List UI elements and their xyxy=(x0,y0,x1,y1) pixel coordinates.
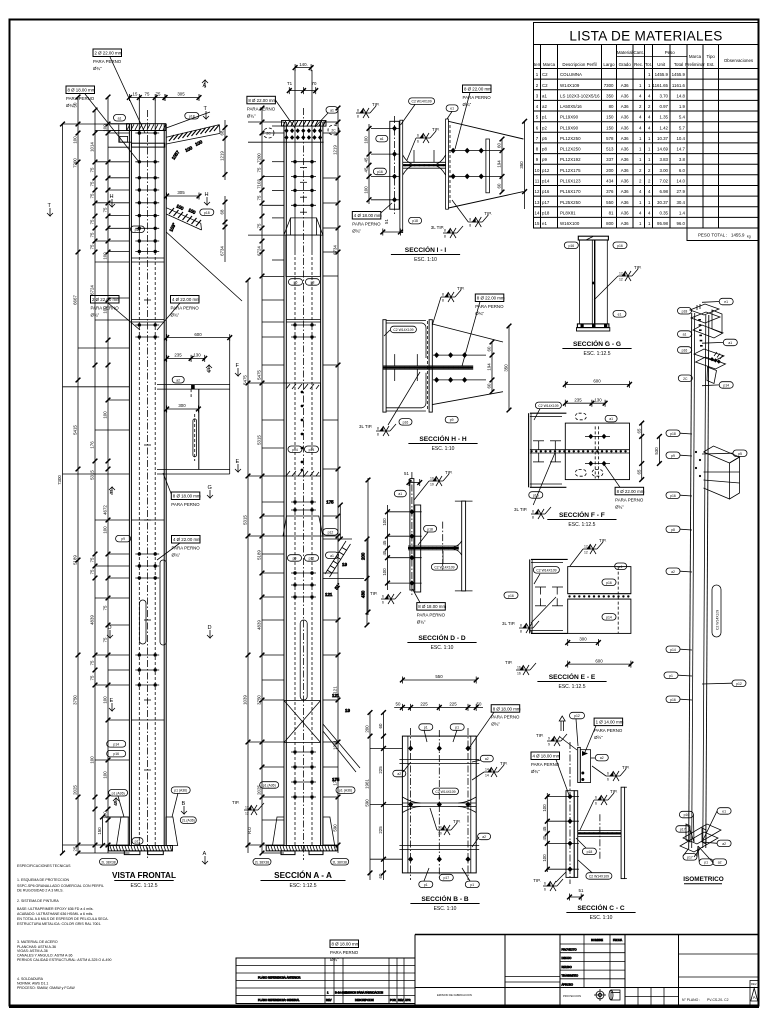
svg-text:8: 8 xyxy=(377,427,379,431)
svg-text:1014: 1014 xyxy=(90,142,95,152)
seat dim 300 xyxy=(164,403,201,412)
svg-text:ESC. 1:10: ESC. 1:10 xyxy=(590,915,613,921)
column1 top cap plate xyxy=(127,124,166,131)
svg-text:3L TIP.: 3L TIP. xyxy=(431,225,444,230)
E-E weld top xyxy=(570,538,606,566)
iso leader lines xyxy=(678,302,733,863)
I-I weld 6 6 mid xyxy=(407,127,439,160)
svg-text:5415: 5415 xyxy=(73,425,78,435)
svg-text:LS 102X3-102X5/16: LS 102X3-102X5/16 xyxy=(560,93,600,98)
D-D bubble a1 xyxy=(394,490,406,497)
svg-text:100: 100 xyxy=(103,306,108,314)
col1 extension lines xyxy=(63,124,130,853)
I-I bubble p16 xyxy=(373,168,386,175)
svg-text:12: 12 xyxy=(619,278,623,282)
iso top bolts xyxy=(698,253,722,347)
marker G up xyxy=(206,365,212,374)
column2 centerline dots xyxy=(300,167,307,212)
svg-text:a2: a2 xyxy=(722,842,726,846)
svg-text:TIP.: TIP. xyxy=(453,819,460,824)
svg-text:p1: p1 xyxy=(669,674,673,678)
svg-text:430: 430 xyxy=(361,590,366,598)
I-I gusset xyxy=(448,121,523,208)
I-I weld TIP top left xyxy=(356,102,379,119)
dim 150 near base xyxy=(97,815,105,848)
svg-text:Total: Total xyxy=(674,62,683,67)
svg-text:5475: 5475 xyxy=(257,370,262,380)
F-F bubble p16 xyxy=(529,492,543,499)
column1 base plate xyxy=(109,846,173,855)
svg-text:45: 45 xyxy=(382,540,387,545)
svg-text:PARA PERNO: PARA PERNO xyxy=(171,502,200,507)
svg-text:2025: 2025 xyxy=(257,785,262,795)
svg-text:6: 6 xyxy=(607,778,609,782)
C-C leader 4口18 xyxy=(531,752,569,795)
svg-text:3.70: 3.70 xyxy=(659,93,668,98)
svg-text:POR: POR xyxy=(390,998,396,1002)
svg-text:305: 305 xyxy=(177,190,185,195)
D-D weld TIP bottom left xyxy=(370,591,401,605)
svg-text:0.35: 0.35 xyxy=(659,210,668,215)
svg-text:60: 60 xyxy=(378,873,383,878)
svg-text:100: 100 xyxy=(103,526,108,534)
H-H web band xyxy=(383,366,473,369)
I-I bubble a1 xyxy=(376,135,388,142)
svg-text:PROCESO: SMAW, GMAW y FCAW: PROCESO: SMAW, GMAW y FCAW xyxy=(17,986,75,990)
svg-text:Ø½": Ø½" xyxy=(594,735,603,740)
svg-text:51: 51 xyxy=(579,888,584,893)
svg-text:p14: p14 xyxy=(723,384,729,388)
F-F weld 3L xyxy=(514,452,555,520)
svg-text:TRANSMITIO: TRANSMITIO xyxy=(562,974,579,978)
svg-text:p14: p14 xyxy=(670,648,676,652)
svg-text:600: 600 xyxy=(593,379,601,384)
svg-text:175: 175 xyxy=(326,500,334,505)
column2 base bubbles xyxy=(253,782,355,865)
svg-text:B: B xyxy=(114,801,118,807)
svg-text:8: 8 xyxy=(357,115,359,119)
I-I leader 8口22 xyxy=(455,85,492,149)
svg-text:e1: e1 xyxy=(619,565,623,569)
svg-text:200: 200 xyxy=(365,725,370,733)
svg-text:6724: 6724 xyxy=(90,285,95,295)
svg-text:PL12X250: PL12X250 xyxy=(560,136,581,141)
svg-text:ESC. 1:10: ESC. 1:10 xyxy=(414,257,437,263)
svg-text:300: 300 xyxy=(579,637,587,642)
svg-text:SECCIÓN G - G: SECCIÓN G - G xyxy=(573,339,621,348)
svg-text:8 Ø 22.00 mm: 8 Ø 22.00 mm xyxy=(477,296,505,301)
F-F dims right xyxy=(636,421,644,482)
svg-text:p16: p16 xyxy=(670,494,676,498)
F-F dim 600 xyxy=(563,379,632,388)
svg-text:p14: p14 xyxy=(542,179,550,184)
svg-text:75: 75 xyxy=(90,219,95,224)
svg-text:p14: p14 xyxy=(309,448,315,452)
svg-text:2C: 2C xyxy=(683,377,688,381)
svg-text:75: 75 xyxy=(156,92,161,97)
svg-text:p14: p14 xyxy=(292,448,298,452)
svg-text:T: T xyxy=(48,203,52,209)
svg-text:81: 81 xyxy=(609,210,614,215)
svg-text:100: 100 xyxy=(103,252,108,260)
leader label 8口18 bottom mid xyxy=(330,940,360,962)
column1 base gussets xyxy=(105,817,178,846)
svg-text:9: 9 xyxy=(548,737,550,741)
column2 trapezoid seat 2 xyxy=(283,516,323,536)
F-F dim 235 130 xyxy=(563,397,608,406)
D-D right flange xyxy=(443,501,473,591)
svg-text:EMISION PARA FABRICACION: EMISION PARA FABRICACION xyxy=(345,991,383,995)
svg-text:p1 (A36): p1 (A36) xyxy=(174,789,187,793)
left dimension chain 4 xyxy=(103,95,111,853)
svg-text:1455.9: 1455.9 xyxy=(731,233,745,238)
iso top cluster xyxy=(690,208,723,338)
svg-text:p8: p8 xyxy=(311,281,315,285)
svg-text:75: 75 xyxy=(90,675,95,680)
svg-text:C2 W14X109: C2 W14X109 xyxy=(716,610,720,630)
leader line 2 top xyxy=(85,94,139,162)
svg-text:350: 350 xyxy=(606,93,614,98)
marker D right xyxy=(207,625,213,638)
marker T left xyxy=(47,203,53,216)
iso mid bracket xyxy=(704,446,740,499)
svg-text:100: 100 xyxy=(382,518,387,526)
D-D plate bolts xyxy=(388,509,422,586)
svg-text:100: 100 xyxy=(103,411,108,419)
B-B leader 8口18 xyxy=(469,705,521,748)
svg-text:PL16X123: PL16X123 xyxy=(560,179,581,184)
svg-text:PARA PERNO: PARA PERNO xyxy=(531,762,560,767)
svg-text:e1: e1 xyxy=(722,810,726,814)
svg-text:65: 65 xyxy=(636,428,641,433)
svg-text:8: 8 xyxy=(469,218,471,222)
svg-text:2L (A36): 2L (A36) xyxy=(182,819,195,823)
svg-text:235: 235 xyxy=(174,353,182,358)
svg-text:1455.9: 1455.9 xyxy=(655,72,669,77)
column2 cross detail xyxy=(284,701,321,743)
svg-text:Ø¾": Ø¾" xyxy=(172,553,181,558)
column2 a1 hex bubble xyxy=(315,107,338,127)
svg-text:p1 (A36): p1 (A36) xyxy=(112,791,125,795)
svg-text:APROBO: APROBO xyxy=(562,982,574,986)
seccion A-A column body xyxy=(284,70,323,860)
svg-text:530: 530 xyxy=(654,447,659,455)
svg-text:TIP.: TIP. xyxy=(232,800,239,805)
F-F center bolt band xyxy=(530,450,630,453)
F-F channel xyxy=(529,413,567,487)
svg-text:B: B xyxy=(182,801,186,807)
svg-text:p12: p12 xyxy=(328,530,334,534)
svg-text:a2: a2 xyxy=(600,756,604,760)
svg-text:Ø¾": Ø¾" xyxy=(615,504,624,509)
H-H weld 3L TIP xyxy=(359,372,420,437)
column2 cap bolt band xyxy=(284,128,324,142)
svg-text:NORMA: AWS D1.1: NORMA: AWS D1.1 xyxy=(17,982,48,986)
svg-text:A: A xyxy=(753,995,756,1000)
svg-text:p14: p14 xyxy=(606,615,612,619)
svg-text:Unit: Unit xyxy=(657,62,666,67)
svg-text:6734: 6734 xyxy=(333,245,338,255)
column2 plate bolts xyxy=(301,391,304,472)
svg-text:200: 200 xyxy=(361,552,366,560)
svg-text:376: 376 xyxy=(606,189,614,194)
svg-text:19: 19 xyxy=(345,708,350,713)
svg-text:p9: p9 xyxy=(671,454,675,458)
iso base cluster xyxy=(680,824,721,857)
svg-text:10: 10 xyxy=(535,168,540,173)
left dimension chain 2 xyxy=(73,95,81,856)
F-F plate bolts xyxy=(585,434,610,467)
svg-text:27.9: 27.9 xyxy=(676,189,685,194)
svg-text:4. SOLDADURA: 4. SOLDADURA xyxy=(17,977,44,981)
svg-text:2 Ø 22.00 mm: 2 Ø 22.00 mm xyxy=(95,51,123,56)
svg-text:9: 9 xyxy=(548,743,550,747)
svg-text:p16: p16 xyxy=(542,189,550,194)
svg-text:Ø¾": Ø¾" xyxy=(93,66,102,71)
C-C weld bottom xyxy=(533,872,566,892)
svg-text:60: 60 xyxy=(378,723,383,728)
svg-text:SECCIÓN F - F: SECCIÓN F - F xyxy=(559,510,605,519)
C-C weld TIP topleft xyxy=(536,733,577,750)
C-C top clip detail xyxy=(559,716,590,783)
column1 base labels xyxy=(100,787,197,865)
svg-text:p17: p17 xyxy=(542,200,550,205)
svg-text:TIP.: TIP. xyxy=(599,538,606,543)
seccion I-I end plate xyxy=(390,116,399,214)
svg-text:1. ESQUEMA DE PROTECCION: 1. ESQUEMA DE PROTECCION xyxy=(17,878,69,882)
svg-text:p16: p16 xyxy=(508,594,514,598)
svg-text:8: 8 xyxy=(520,624,522,628)
I-I dims left xyxy=(364,124,372,204)
svg-text:600: 600 xyxy=(194,332,202,337)
svg-text:6: 6 xyxy=(417,134,419,138)
svg-text:p16: p16 xyxy=(135,228,141,232)
E-E weld 3L xyxy=(502,597,556,634)
section arrow A bottom col1 xyxy=(202,851,208,864)
bubble p9 xyxy=(116,535,131,542)
svg-text:10: 10 xyxy=(438,826,442,830)
column2 bubbles pair xyxy=(289,279,320,286)
svg-text:590: 590 xyxy=(365,799,370,807)
column2 trapezoid seat 1 xyxy=(284,218,323,235)
svg-text:ISOMETRICO: ISOMETRICO xyxy=(683,876,724,883)
svg-text:TIP.: TIP. xyxy=(432,127,439,132)
svg-text:96.0: 96.0 xyxy=(676,221,685,226)
svg-text:2L 38X38: 2L 38X38 xyxy=(101,860,116,864)
svg-text:p18: p18 xyxy=(670,432,676,436)
svg-text:8 Ø 18.00 mm: 8 Ø 18.00 mm xyxy=(332,942,360,947)
leader label 2口22 top xyxy=(93,49,123,71)
svg-text:A36: A36 xyxy=(621,83,629,88)
H-H gusset bolts xyxy=(433,352,486,383)
B-B weld mid xyxy=(430,808,460,836)
svg-text:11: 11 xyxy=(535,179,540,184)
svg-text:REVISO: REVISO xyxy=(562,965,572,969)
svg-text:350: 350 xyxy=(504,364,509,372)
svg-text:T1: T1 xyxy=(287,81,293,86)
svg-text:45: 45 xyxy=(364,167,369,172)
peso total box xyxy=(687,228,759,241)
svg-text:F: F xyxy=(110,490,114,496)
svg-text:ESTRUCTURA METALICA: COLOR GRI: ESTRUCTURA METALICA: COLOR GRIS RAL 7001… xyxy=(17,922,101,926)
svg-text:A: A xyxy=(203,851,207,857)
svg-text:TIP.: TIP. xyxy=(370,591,377,596)
B-B center label xyxy=(433,788,459,795)
svg-text:19: 19 xyxy=(342,562,347,567)
column1 top diagonal brace xyxy=(166,112,220,161)
svg-text:45: 45 xyxy=(382,550,387,555)
svg-text:SECCIÓN B - B: SECCIÓN B - B xyxy=(421,894,468,903)
I-I weld TIP bottom right xyxy=(452,200,492,228)
svg-text:SECCIÓN D - D: SECCIÓN D - D xyxy=(418,633,465,642)
column2 top cap plate xyxy=(282,121,327,127)
svg-text:p16: p16 xyxy=(403,420,409,424)
svg-text:8: 8 xyxy=(469,224,471,228)
svg-text:a1: a1 xyxy=(609,417,613,421)
svg-text:5189: 5189 xyxy=(257,550,262,560)
svg-text:PARA PERNO: PARA PERNO xyxy=(66,96,95,101)
I-I dim 51 xyxy=(380,219,402,236)
svg-text:p16: p16 xyxy=(606,581,612,585)
svg-text:1.4: 1.4 xyxy=(679,210,686,215)
marker F left mid xyxy=(109,487,115,496)
svg-text:200: 200 xyxy=(606,168,614,173)
svg-text:a2: a2 xyxy=(397,772,401,776)
B-B weld 14 14 xyxy=(472,761,507,780)
svg-text:LISTA DE MATERIALES: LISTA DE MATERIALES xyxy=(569,29,722,44)
svg-text:PESO TOTAL :: PESO TOTAL : xyxy=(698,233,727,238)
svg-text:8: 8 xyxy=(444,235,446,239)
D-D end plate xyxy=(410,472,421,596)
svg-text:8 Ø 18.00 mm: 8 Ø 18.00 mm xyxy=(418,604,446,609)
svg-text:12: 12 xyxy=(535,189,540,194)
seccion F-F title xyxy=(547,510,616,528)
svg-text:H: H xyxy=(205,192,209,198)
svg-text:16: 16 xyxy=(517,666,521,670)
svg-text:4839: 4839 xyxy=(257,620,262,630)
svg-text:6: 6 xyxy=(595,796,597,800)
svg-text:a1: a1 xyxy=(398,492,402,496)
B-B dims left xyxy=(365,710,373,880)
svg-text:TIP.: TIP. xyxy=(505,660,512,665)
svg-text:p9: p9 xyxy=(542,157,547,162)
D-D weld TIP top right xyxy=(414,470,452,500)
svg-text:e1: e1 xyxy=(542,221,547,226)
svg-text:121: 121 xyxy=(325,592,333,597)
svg-text:6: 6 xyxy=(607,772,609,776)
svg-text:A36: A36 xyxy=(621,147,629,152)
title block main boxes xyxy=(415,935,759,1006)
svg-text:NOMBRE: NOMBRE xyxy=(591,938,603,942)
svg-text:LA50X5/16: LA50X5/16 xyxy=(560,104,582,109)
seat label 8口18 xyxy=(163,473,201,507)
svg-text:p16: p16 xyxy=(682,349,688,353)
title block revision table xyxy=(236,958,415,1004)
dim 75 75 top col1 xyxy=(127,92,167,101)
B-B bolts xyxy=(370,746,471,863)
D-D web band xyxy=(408,546,459,550)
svg-text:1039: 1039 xyxy=(243,695,248,705)
svg-text:100: 100 xyxy=(364,136,369,144)
svg-text:25: 25 xyxy=(73,846,78,851)
D-D far left chain xyxy=(366,478,371,615)
svg-text:a1: a1 xyxy=(330,554,334,558)
svg-text:75: 75 xyxy=(103,207,108,212)
svg-text:PARA PERNO: PARA PERNO xyxy=(615,497,644,502)
svg-text:225: 225 xyxy=(449,702,457,707)
svg-text:14: 14 xyxy=(485,774,489,778)
svg-text:130: 130 xyxy=(193,353,201,358)
seccion H-H channel xyxy=(383,320,426,412)
svg-text:p1: p1 xyxy=(470,883,474,887)
column2 top bolt rows xyxy=(291,160,316,339)
svg-text:p1: p1 xyxy=(542,115,547,120)
svg-text:p18: p18 xyxy=(204,211,210,215)
svg-text:e1: e1 xyxy=(450,107,454,111)
proyeccion symbols xyxy=(563,989,620,1001)
svg-text:kg: kg xyxy=(747,235,751,239)
column2 8口22 leader xyxy=(247,96,295,128)
svg-text:TIP.: TIP. xyxy=(457,286,464,291)
svg-text:p16: p16 xyxy=(568,244,574,248)
svg-text:30.4: 30.4 xyxy=(676,200,685,205)
svg-text:8: 8 xyxy=(520,630,522,634)
D-D stadium label xyxy=(431,551,457,570)
materials list table xyxy=(533,23,759,241)
svg-text:1161.6: 1161.6 xyxy=(672,83,686,88)
svg-text:p9: p9 xyxy=(293,557,297,561)
svg-text:10: 10 xyxy=(430,483,434,487)
svg-text:60: 60 xyxy=(487,383,492,388)
column2 bubbles pair 2 xyxy=(288,555,319,562)
svg-text:225: 225 xyxy=(420,702,428,707)
bubble a1 topleft xyxy=(114,115,126,122)
C-C bubble p12 xyxy=(570,712,585,746)
svg-text:A: A xyxy=(203,83,207,89)
svg-text:PL8X81: PL8X81 xyxy=(560,210,576,215)
svg-text:14: 14 xyxy=(535,210,540,215)
svg-text:PROYECCION: PROYECCION xyxy=(563,994,581,998)
svg-text:75: 75 xyxy=(90,660,95,665)
E-E weld 16 xyxy=(505,660,536,676)
svg-text:Observaciones: Observaciones xyxy=(724,58,754,63)
H-H weld TIP top xyxy=(432,286,464,325)
svg-text:ESC. 1:10: ESC. 1:10 xyxy=(434,906,457,912)
marker D left xyxy=(107,625,113,638)
isometric column xyxy=(689,313,709,848)
svg-text:VISTA FRONTAL: VISTA FRONTAL xyxy=(112,871,176,880)
G-G ovals xyxy=(564,242,627,317)
column1 second diagonal brace xyxy=(166,203,242,301)
svg-text:SECCIÓN E - E: SECCIÓN E - E xyxy=(549,672,596,681)
svg-text:6734: 6734 xyxy=(220,246,225,256)
seccion I-I title xyxy=(391,245,460,263)
svg-text:TIP.: TIP. xyxy=(610,789,617,794)
svg-text:PL19X90: PL19X90 xyxy=(560,125,579,130)
svg-text:6667: 6667 xyxy=(73,295,78,305)
column1 right stiffener slot xyxy=(160,560,166,645)
column2 wide plate segment xyxy=(284,383,321,476)
svg-text:p18: p18 xyxy=(427,527,433,531)
svg-text:p12: p12 xyxy=(736,682,742,686)
svg-text:p8: p8 xyxy=(671,528,675,532)
C-C plate bolts xyxy=(546,794,579,872)
seat bubble a2 xyxy=(172,377,184,384)
svg-text:Marca: Marca xyxy=(543,62,556,67)
svg-text:51: 51 xyxy=(384,219,389,224)
seccion G-G title xyxy=(562,339,631,357)
bubble p16 left xyxy=(131,226,145,233)
